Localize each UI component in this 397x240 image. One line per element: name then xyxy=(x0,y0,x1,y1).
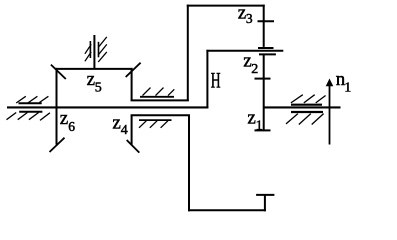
svg-text:H: H xyxy=(211,67,221,92)
lower box top edge xyxy=(131,114,190,116)
bearing: right (on input shaft) xyxy=(286,95,326,125)
carrier H horizontal arm xyxy=(206,50,283,52)
gear z5 left side / gear z6 vertical line xyxy=(56,68,58,145)
frame channel top horizontal xyxy=(187,5,265,7)
gear z6 bottom tick xyxy=(50,138,65,152)
carrier H vertical arm xyxy=(206,50,208,109)
bearing: lower middle (in lower box) xyxy=(139,120,172,128)
svg-text:1: 1 xyxy=(344,81,351,96)
svg-text:z: z xyxy=(238,2,246,23)
step line under ring gear xyxy=(131,99,189,101)
frame channel left vertical xyxy=(187,5,189,101)
gear z3 mesh T-bar xyxy=(258,47,274,49)
svg-text:4: 4 xyxy=(121,123,128,138)
bearing: left (on output shaft) xyxy=(7,96,50,120)
gear z1 bottom T-bar xyxy=(255,129,271,131)
svg-text:z: z xyxy=(87,69,95,90)
gear z5 box right side xyxy=(131,68,133,101)
ring gear lower rim vertical xyxy=(264,195,266,211)
gears z2/z1 vertical line xyxy=(263,54,265,130)
gear z4 vertical line (lower box left side) xyxy=(131,115,133,145)
ring gear lower rim T-bar xyxy=(256,194,274,196)
gear z3 tick xyxy=(258,20,275,22)
svg-text:z: z xyxy=(112,112,120,133)
svg-text:1: 1 xyxy=(256,119,263,134)
svg-text:2: 2 xyxy=(251,62,258,77)
bearing: upper middle (on step line) xyxy=(140,88,174,97)
svg-text:5: 5 xyxy=(95,81,102,96)
svg-text:3: 3 xyxy=(246,11,253,26)
shaft: main left axis (output shaft of carrier H) xyxy=(7,106,208,108)
gear z3 vertical line xyxy=(263,5,265,47)
shaft: right input axis n1 xyxy=(263,106,341,108)
gear z5 top-left corner tick xyxy=(51,65,66,79)
svg-text:6: 6 xyxy=(68,119,75,134)
fixed support (frame anchor) above gear z5 xyxy=(85,35,107,70)
svg-text:z: z xyxy=(247,107,255,128)
frame channel bottom right vertical xyxy=(188,115,190,211)
gear z2 top T-bar xyxy=(259,53,276,55)
arrow n1 (input speed) xyxy=(326,79,334,145)
gear z2 lower tick xyxy=(255,78,271,80)
gear z4 tick xyxy=(127,140,140,153)
svg-text:z: z xyxy=(60,108,68,129)
gear z5 box top edge xyxy=(56,68,133,70)
gear z5 top-right corner tick xyxy=(126,63,141,77)
frame channel bottom horizontal xyxy=(188,209,266,211)
